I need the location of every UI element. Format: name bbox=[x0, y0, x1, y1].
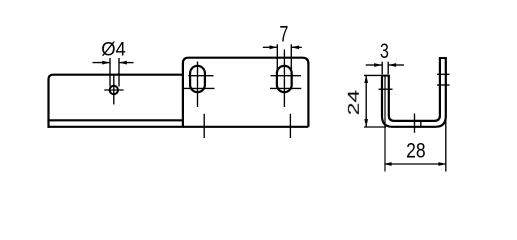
dimension 24: extension lines bbox=[364, 75, 386, 127]
dimension D4: left arrow bbox=[93, 62, 110, 64]
dimension 3: right arrow bbox=[389, 64, 404, 66]
side view: outer profile of U channel bbox=[382, 58, 446, 127]
hole D4 vertical centerline bbox=[113, 74, 115, 105]
svg-text:24: 24 bbox=[346, 89, 363, 115]
slot 1 lower arc centerline bbox=[183, 87, 215, 89]
dimension D4: right arrow bbox=[120, 62, 134, 64]
bottom hole centerline dash 1 bbox=[203, 114, 205, 138]
dimension 7: left arrow bbox=[263, 46, 277, 48]
hole D4 bbox=[110, 86, 118, 94]
front view: left plate outline bbox=[49, 75, 183, 127]
slot 2 upper arc centerline bbox=[271, 75, 302, 77]
side view: right wall top cap bbox=[439, 57, 447, 59]
side view: bottom face hole edge tick bbox=[420, 120, 422, 127]
front view: right plate outline bbox=[183, 58, 309, 127]
side view: bottom center dash bbox=[414, 114, 416, 133]
side view: left wall top cap bbox=[381, 75, 390, 77]
dimension 7: extension lines bbox=[277, 44, 291, 84]
side view: slot lower arc centerline tick on right wall bbox=[437, 84, 450, 86]
bottom hole centerline dash 2 bbox=[289, 114, 291, 138]
slot 1 (left) bbox=[190, 66, 205, 92]
slot 1 upper arc centerline bbox=[188, 75, 213, 77]
dimension 24: dimension line bbox=[365, 76, 367, 127]
dimension 7: right arrow bbox=[292, 46, 302, 48]
front view: inner bottom line (material thickness) bbox=[49, 119, 183, 121]
front view: bottom edge line bbox=[49, 126, 309, 128]
slot 2 vertical centerline bbox=[283, 50, 285, 108]
side view: 28 right extension line bbox=[445, 112, 447, 172]
dimension 3: extension lines bbox=[382, 62, 388, 75]
dimension D4: extension lines bbox=[110, 58, 119, 87]
side view: inner profile of U channel bbox=[389, 58, 440, 121]
slot 2 (right) bbox=[277, 66, 292, 92]
hole D4 horizontal centerline bbox=[104, 89, 123, 91]
dimension 28: dimension line bbox=[385, 163, 446, 165]
svg-text:3: 3 bbox=[380, 39, 389, 63]
slot 2 lower arc centerline bbox=[270, 87, 301, 89]
svg-text:7: 7 bbox=[279, 22, 288, 47]
svg-text:28: 28 bbox=[406, 140, 426, 163]
dimension 3: left arrow bbox=[366, 64, 382, 66]
side view: hole centerline tick on left wall bbox=[379, 88, 393, 90]
side view: slot upper arc centerline tick on right wall bbox=[437, 73, 450, 75]
svg-text:Ø4: Ø4 bbox=[101, 38, 126, 60]
slot 1 vertical centerline bbox=[197, 62, 199, 108]
side view: middle line / 28 left extension line bbox=[384, 76, 386, 172]
